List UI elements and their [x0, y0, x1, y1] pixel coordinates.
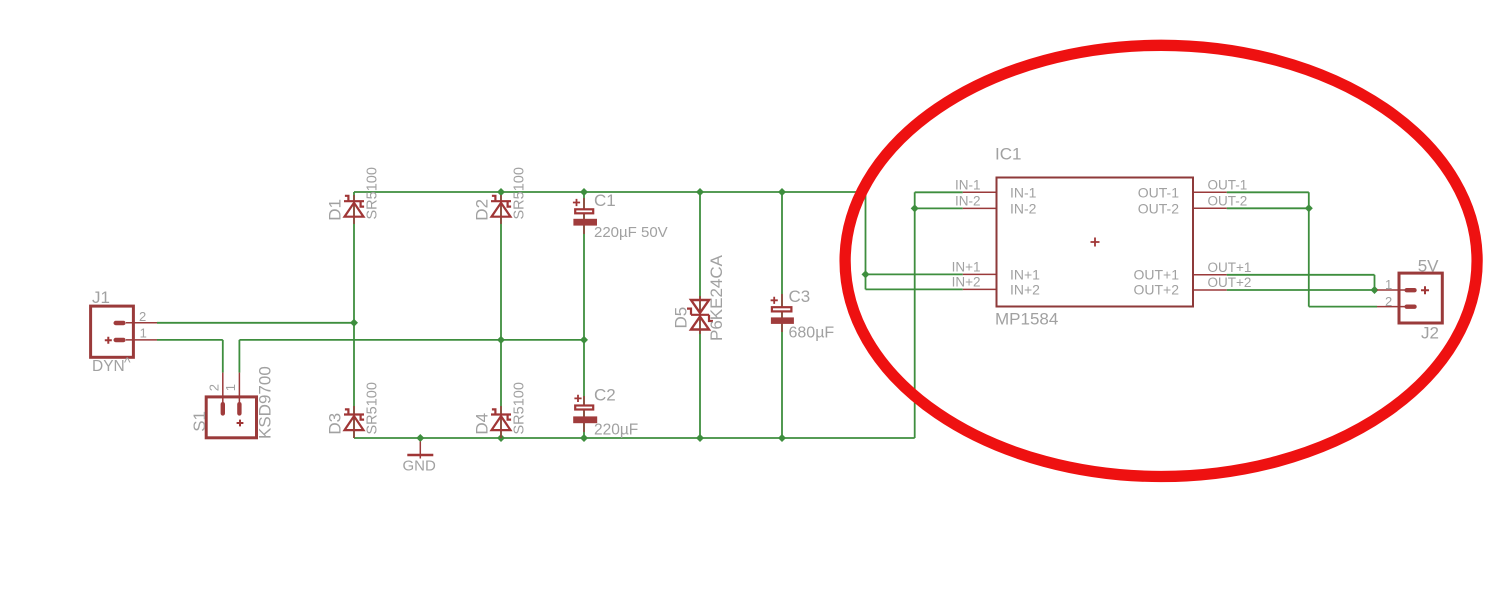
svg-text:IN+2: IN+2 [952, 275, 981, 290]
svg-text:D2: D2 [473, 199, 492, 221]
svg-text:DYN: DYN [92, 358, 125, 375]
svg-text:MP1584: MP1584 [995, 310, 1058, 329]
svg-text:OUT+1: OUT+1 [1208, 260, 1252, 275]
svg-text:D3: D3 [326, 413, 345, 435]
svg-text:2: 2 [1385, 294, 1392, 309]
svg-text:D5: D5 [672, 307, 691, 329]
svg-text:C3: C3 [789, 287, 811, 306]
svg-text:^: ^ [124, 354, 131, 370]
svg-text:IN-2: IN-2 [955, 194, 981, 209]
svg-text:SR5100: SR5100 [365, 167, 381, 219]
svg-text:S1: S1 [190, 411, 209, 432]
svg-text:C1: C1 [594, 191, 616, 210]
svg-text:J1: J1 [92, 288, 110, 307]
svg-text:IN-1: IN-1 [955, 178, 981, 193]
svg-text:KSD9700: KSD9700 [256, 366, 275, 439]
svg-text:IN-1: IN-1 [1010, 184, 1037, 200]
svg-text:OUT-1: OUT-1 [1138, 184, 1179, 200]
svg-text:D1: D1 [326, 199, 345, 221]
svg-text:2: 2 [139, 309, 146, 324]
svg-text:IC1: IC1 [995, 145, 1021, 164]
svg-text:220µF: 220µF [594, 422, 638, 439]
svg-text:IN+1: IN+1 [952, 260, 981, 275]
svg-text:SR5100: SR5100 [365, 382, 381, 434]
svg-text:SR5100: SR5100 [512, 382, 528, 434]
svg-text:OUT+1: OUT+1 [1133, 267, 1179, 283]
svg-text:220µF 50V: 220µF 50V [594, 224, 668, 241]
svg-text:2: 2 [207, 384, 222, 391]
svg-text:OUT-2: OUT-2 [1208, 194, 1248, 209]
svg-text:OUT+2: OUT+2 [1133, 282, 1179, 298]
svg-text:IN+2: IN+2 [1010, 282, 1040, 298]
svg-text:OUT+2: OUT+2 [1208, 275, 1252, 290]
svg-text:GND: GND [403, 458, 437, 475]
svg-text:5V: 5V [1418, 257, 1439, 276]
svg-text:C2: C2 [594, 386, 616, 405]
svg-text:680µF: 680µF [789, 325, 835, 342]
svg-text:SR5100: SR5100 [512, 167, 528, 219]
svg-text:D4: D4 [473, 413, 492, 435]
svg-text:J2: J2 [1421, 324, 1439, 343]
svg-text:1: 1 [140, 325, 147, 340]
svg-text:P6KE24CA: P6KE24CA [707, 254, 726, 341]
svg-text:1: 1 [1385, 277, 1392, 292]
svg-text:OUT-2: OUT-2 [1138, 201, 1179, 217]
svg-text:IN-2: IN-2 [1010, 201, 1037, 217]
svg-text:OUT-1: OUT-1 [1208, 178, 1248, 193]
svg-text:1: 1 [223, 384, 238, 391]
svg-text:IN+1: IN+1 [1010, 267, 1040, 283]
